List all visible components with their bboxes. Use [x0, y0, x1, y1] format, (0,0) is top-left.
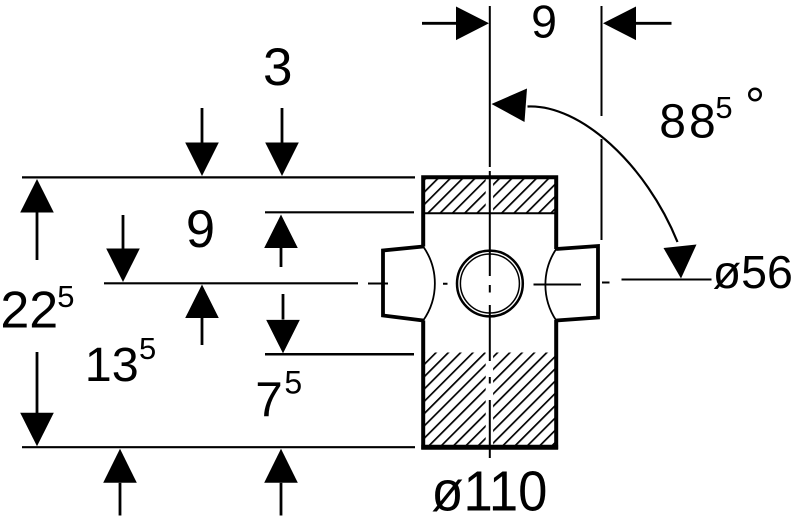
svg-text:9: 9	[531, 0, 557, 48]
svg-text:5: 5	[284, 365, 302, 401]
extension line D	[265, 353, 414, 356]
left socket arc	[423, 247, 435, 321]
arrow down at x=283 to line D	[266, 294, 300, 353]
extension line B	[265, 211, 414, 213]
bore circle inner	[460, 254, 519, 313]
svg-text:9: 9	[186, 200, 215, 259]
svg-text:22: 22	[0, 281, 58, 339]
svg-text:5: 5	[57, 279, 74, 314]
body outline	[423, 177, 556, 447]
angle arc arrowhead lower	[664, 245, 697, 279]
arrow up at x=37 to line A (dim 22.5 top)	[20, 179, 54, 260]
arrow down at x=123 to line C	[106, 215, 140, 282]
arrow down at x=37 to line E (dim 22.5 bottom)	[20, 352, 54, 446]
arrow up at x=281 to line E	[264, 449, 298, 516]
svg-text:13: 13	[85, 338, 139, 392]
degree symbol	[749, 89, 761, 101]
extension line E (bottom of body)	[22, 446, 415, 448]
arrow right to centreline (top dim 9)	[422, 7, 489, 41]
svg-text:5: 5	[715, 90, 732, 125]
arrow up at x=118 to line E	[103, 449, 137, 516]
svg-text:88: 88	[659, 96, 718, 149]
top hatch band	[423, 179, 556, 214]
angle arc arrowhead upper	[492, 89, 528, 123]
dimension line C (centre height)	[104, 282, 358, 284]
bore circle outer	[457, 251, 523, 317]
arrow up at x=202 to line C	[185, 285, 219, 346]
svg-text:ø56: ø56	[713, 246, 793, 298]
vertical centerline	[489, 6, 491, 458]
left socket stub	[383, 247, 423, 321]
svg-text:5: 5	[139, 331, 156, 366]
arrow up at x=281 to line B	[264, 215, 298, 268]
right socket arc	[545, 249, 556, 321]
horizontal centerline	[368, 283, 610, 285]
arrow down at x=202 to line A	[185, 108, 219, 176]
centerline clearance channel	[486, 178, 493, 448]
top hatch boundary line	[422, 212, 558, 214]
svg-text:ø110: ø110	[431, 460, 547, 524]
extension line right (x=601.5)	[601, 6, 603, 240]
right socket stub	[556, 246, 598, 321]
body bottom edge (heavy)	[421, 445, 558, 450]
arrow down at x=282 to line A	[265, 108, 299, 176]
bottom hatch band	[423, 353, 556, 448]
svg-text:3: 3	[263, 38, 292, 97]
arrow left to line x=601.5 (top dim 9)	[603, 7, 672, 41]
extension line A (top of body)	[22, 176, 415, 178]
leader line for ø56	[622, 279, 712, 281]
angle arc 88.5 deg	[528, 106, 678, 242]
svg-text:7: 7	[255, 372, 283, 427]
